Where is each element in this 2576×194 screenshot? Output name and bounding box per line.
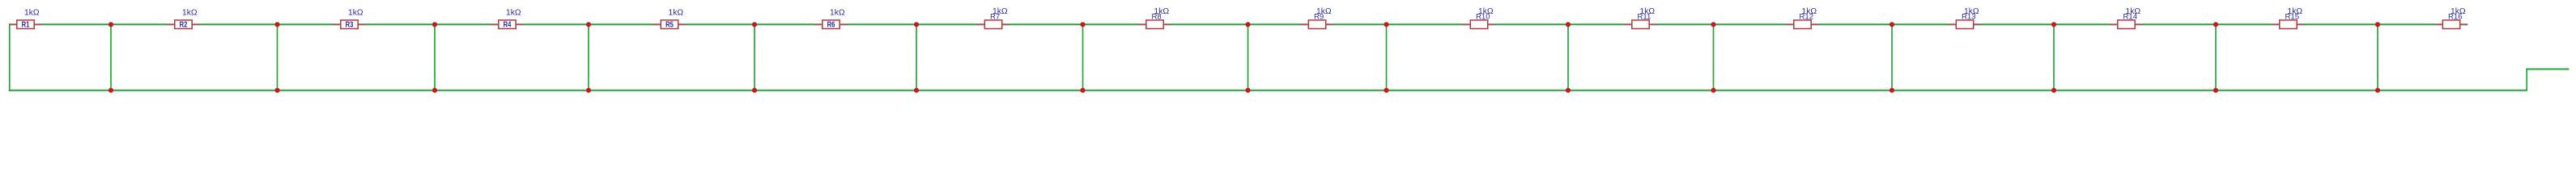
svg-text:1kΩ: 1kΩ: [182, 8, 198, 17]
junction node 1 bottom: [108, 88, 113, 93]
resistor R11 1k&#937;: [1624, 7, 1657, 29]
junction node 7 bottom: [1080, 88, 1085, 93]
junction node 3 top: [432, 22, 437, 27]
junction node 3 bottom: [432, 88, 437, 93]
svg-text:R2: R2: [180, 21, 188, 30]
svg-text:R3: R3: [346, 21, 354, 30]
resistor R7 1k&#937;: [977, 7, 1010, 29]
junction node 4 bottom: [586, 88, 591, 93]
svg-text:1kΩ: 1kΩ: [669, 8, 684, 17]
wire bottom rail: [9, 90, 2527, 91]
junction node 5 top: [752, 22, 757, 27]
resistor R16 1k&#937;: [2435, 7, 2468, 29]
resistor R3 1k&#937;: [333, 8, 366, 29]
junction node 15 top: [2375, 22, 2380, 27]
wire from R15 to node 15: [2304, 23, 2378, 25]
resistor R8 1k&#937;: [1138, 7, 1171, 29]
junction node 4 top: [586, 22, 591, 27]
wire shunt vertical at node 15: [2377, 24, 2378, 90]
svg-text:1kΩ: 1kΩ: [24, 8, 40, 17]
junction node 10 top: [1566, 22, 1571, 27]
wire from R7 to node 7: [1010, 23, 1083, 25]
wire shunt vertical at node 14: [2215, 24, 2217, 90]
junction node 7 top: [1080, 22, 1085, 27]
resistor R2 1k&#937;: [167, 8, 200, 29]
svg-text:R10: R10: [1476, 12, 1490, 21]
wire shunt vertical at node 13: [2053, 24, 2055, 90]
wire from node 8 to R9: [1248, 23, 1302, 25]
wire left vertical drop: [9, 23, 11, 91]
junction node 11 bottom: [1711, 88, 1715, 93]
junction node 2 bottom: [274, 88, 279, 93]
wire shunt vertical at node 9: [1386, 24, 1388, 90]
wire shunt vertical at node 4: [588, 24, 589, 90]
wire from node 13 to R14: [2054, 23, 2111, 25]
junction node 14 bottom: [2213, 88, 2218, 93]
wire right step horizontal: [2526, 69, 2569, 70]
svg-text:1kΩ: 1kΩ: [830, 8, 845, 17]
wire from R3 to node 3: [365, 23, 435, 25]
wire from R9 to node 9: [1333, 23, 1387, 25]
resistor R14 1k&#937;: [2110, 7, 2143, 29]
junction node 8 top: [1245, 22, 1250, 27]
wire shunt vertical at node 10: [1567, 24, 1569, 90]
junction node 13 bottom: [2051, 88, 2056, 93]
resistor R12 1k&#937;: [1786, 7, 1819, 29]
junction node 12 top: [1889, 22, 1894, 27]
junction node 14 top: [2213, 22, 2218, 27]
svg-text:R9: R9: [1314, 12, 1324, 21]
resistor R9 1k&#937;: [1301, 7, 1334, 29]
wire shunt vertical at node 5: [754, 24, 755, 90]
svg-text:R8: R8: [1152, 12, 1162, 21]
wire from R5 to node 5: [686, 23, 755, 25]
wire from node 14 to R15: [2216, 23, 2272, 25]
wire from node 9 to R10: [1387, 23, 1464, 25]
wire from node 1 to R2: [111, 23, 168, 25]
svg-text:R4: R4: [504, 21, 512, 30]
wire from R12 to node 12: [1818, 23, 1892, 25]
wire from node 11 to R12: [1714, 23, 1787, 25]
wire from node 12 to R13: [1892, 23, 1949, 25]
svg-text:R11: R11: [1638, 12, 1651, 21]
junction node 12 bottom: [1889, 88, 1894, 93]
junction node 15 bottom: [2375, 88, 2380, 93]
svg-text:R15: R15: [2285, 12, 2300, 21]
wire from R1 to node 1: [41, 23, 111, 25]
junction node 5 bottom: [752, 88, 757, 93]
wire from R11 to node 11: [1656, 23, 1713, 25]
wire from R10 to node 10: [1495, 23, 1568, 25]
svg-text:R14: R14: [2123, 12, 2138, 21]
svg-text:R13: R13: [1962, 12, 1976, 21]
resistor R13 1k&#937;: [1949, 7, 1982, 29]
wire shunt vertical at node 11: [1713, 24, 1715, 90]
wire from R2 to node 2: [199, 23, 277, 25]
wire from R8 to node 8: [1171, 23, 1248, 25]
junction node 9 bottom: [1384, 88, 1388, 93]
wire shunt vertical at node 6: [916, 24, 917, 90]
svg-text:R6: R6: [827, 21, 835, 30]
wire shunt vertical at node 1: [110, 24, 112, 90]
resistor R4 1k&#937;: [491, 8, 524, 29]
wire from R13 to node 13: [1981, 23, 2054, 25]
svg-text:R7: R7: [990, 12, 1000, 21]
resistor R1 1k&#937;: [9, 8, 42, 29]
svg-text:1kΩ: 1kΩ: [348, 8, 363, 17]
wire shunt vertical at node 7: [1082, 24, 1084, 90]
wire shunt vertical at node 3: [434, 24, 436, 90]
wire shunt vertical at node 12: [1891, 24, 1893, 90]
wire shunt vertical at node 8: [1248, 24, 1249, 90]
wire from node 7 to R8: [1083, 23, 1139, 25]
junction node 13 top: [2051, 22, 2056, 27]
wire shunt vertical at node 2: [277, 24, 278, 90]
wire from R4 to node 4: [523, 23, 589, 25]
svg-text:R12: R12: [1800, 12, 1814, 21]
resistor R5 1k&#937;: [653, 8, 687, 29]
svg-text:R1: R1: [22, 21, 30, 30]
wire from node 10 to R11: [1568, 23, 1625, 25]
wire from node 2 to R3: [278, 23, 334, 25]
junction node 1 top: [108, 22, 113, 27]
svg-text:R5: R5: [665, 21, 674, 30]
wire right step vertical: [2526, 70, 2527, 91]
wire from node 5 to R6: [755, 23, 815, 25]
wire from node 6 to R7: [916, 23, 977, 25]
resistor R10 1k&#937;: [1463, 7, 1496, 29]
junction node 10 bottom: [1566, 88, 1571, 93]
resistor R6 1k&#937;: [814, 8, 848, 29]
wire from node 15 to R16: [2378, 23, 2435, 25]
junction node 2 top: [274, 22, 279, 27]
junction node 11 top: [1711, 22, 1715, 27]
junction node 6 top: [914, 22, 919, 27]
wire from R6 to node 6: [847, 23, 916, 25]
junction node 8 bottom: [1245, 88, 1250, 93]
wire from R14 to node 14: [2142, 23, 2216, 25]
svg-text:1kΩ: 1kΩ: [506, 8, 521, 17]
wire from node 3 to R4: [435, 23, 491, 25]
junction node 6 bottom: [914, 88, 919, 93]
wire from node 4 to R5: [589, 23, 653, 25]
resistor R15 1k&#937;: [2272, 7, 2305, 29]
svg-text:R16: R16: [2448, 12, 2463, 21]
junction node 9 top: [1384, 22, 1388, 27]
